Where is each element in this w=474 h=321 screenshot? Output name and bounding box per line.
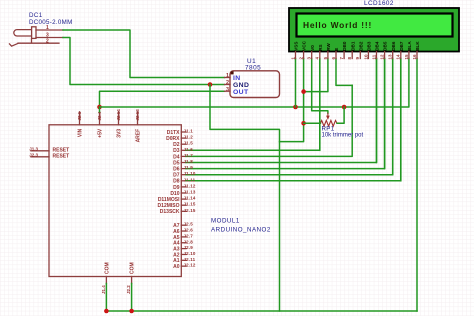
LCD pin 14 DB7 stub — [400, 52, 402, 59]
wire LCD pin16 BLK to ground rail — [416, 59, 418, 312]
MODUL1 right pin A1 (J2.11) — [181, 259, 186, 261]
wire LCD VDD pin1 drop to +5V rail — [295, 59, 297, 108]
svg-text:J2.2: J2.2 — [126, 285, 131, 294]
svg-text:2: 2 — [46, 38, 49, 44]
svg-text:A0: A0 — [173, 264, 180, 270]
svg-text:D10: D10 — [170, 191, 179, 197]
svg-text:Hello World !!!: Hello World !!! — [303, 20, 372, 30]
wire LCD DB4 pin11 riser from D5 — [376, 59, 378, 163]
svg-text:7805: 7805 — [245, 65, 261, 72]
LCD pin 6 E stub — [335, 52, 337, 59]
MODUL1 right pin D11MOSI (J1.14) — [181, 198, 186, 200]
U1 pin 1 IN stub — [225, 77, 231, 79]
node GND junction at 210,84.5 — [208, 82, 213, 87]
wire D3 to LCD RS — [186, 59, 320, 151]
svg-text:MODUL1: MODUL1 — [211, 218, 240, 225]
svg-text:ARDUINO_NANO2: ARDUINO_NANO2 — [211, 227, 271, 234]
svg-text:10: 10 — [363, 54, 368, 60]
U1 pin 3 OUT stub — [225, 90, 231, 92]
wire jack pin1 to U1 IN — [63, 30, 225, 78]
svg-text:DB4: DB4 — [375, 41, 380, 51]
wire LCD DB7 pin14 riser from D8 — [400, 59, 402, 181]
node trimmer left junction — [301, 121, 306, 126]
svg-text:RESET: RESET — [53, 154, 70, 160]
svg-text:DB6: DB6 — [391, 41, 396, 51]
svg-text:13: 13 — [388, 54, 393, 60]
MODUL1 right pin D8 (J1.11) — [181, 180, 186, 182]
svg-text:J1.10: J1.10 — [184, 171, 196, 176]
MODUL1 left pin RESET (J2.3) — [31, 156, 49, 158]
DC1 pin 2 stub — [18, 42, 59, 44]
LCD pin 7 DB0 stub — [343, 52, 345, 59]
svg-text:D13SCK: D13SCK — [160, 209, 180, 215]
svg-text:J2.1: J2.1 — [77, 111, 82, 120]
MODUL1 top pin AREF (J2.13) — [137, 112, 139, 125]
MODUL1 right pin D13SCK (J2.15) — [181, 210, 186, 212]
svg-text:D4: D4 — [173, 154, 180, 160]
wire trimmer right lead up to +5V rail — [337, 107, 344, 123]
svg-text:D8: D8 — [173, 179, 180, 185]
LCD pin 1 VSS stub — [295, 52, 297, 59]
svg-text:DB0: DB0 — [342, 41, 347, 51]
DC1 pin 3 stub — [36, 37, 63, 39]
svg-text:J2.15: J2.15 — [184, 208, 196, 213]
svg-text:D3: D3 — [173, 148, 180, 154]
LCD pin 8 DB1 stub — [351, 52, 353, 59]
svg-text:E: E — [334, 48, 339, 51]
wire +5V rail to LCD — [100, 59, 409, 108]
module MODUL1 ARDUINO_NANO2 body — [49, 125, 181, 277]
svg-text:J1.9: J1.9 — [184, 165, 194, 170]
MODUL1 right pin D9 (J1.12) — [181, 186, 186, 188]
svg-text:BLK: BLK — [415, 41, 420, 51]
svg-text:J1.4: J1.4 — [101, 285, 106, 294]
svg-text:J2.3: J2.3 — [29, 152, 38, 157]
wire LCD RW pin5 to ground line — [304, 59, 328, 92]
MODUL1 top pin VIN (J2.1) — [79, 112, 81, 125]
LCD pin 9 DB2 stub — [359, 52, 361, 59]
svg-text:IN: IN — [233, 75, 241, 82]
display LCD1602 body — [289, 8, 459, 52]
svg-text:J1.15: J1.15 — [184, 202, 196, 207]
svg-text:J2.4: J2.4 — [97, 111, 102, 120]
LCD pin 5 RW stub — [327, 52, 329, 59]
connector DC1 DC005-2.0MM (barrel jack) — [9, 27, 36, 47]
wire LCD RS pin4 riser from D3 — [319, 59, 321, 151]
LCD pin 3 V0 stub — [311, 52, 313, 59]
svg-text:VCC: VCC — [302, 40, 307, 50]
node +5V at trimmer right leg — [342, 105, 347, 110]
svg-text:12: 12 — [380, 54, 385, 60]
wire LCD DB5 pin12 riser from D6 — [384, 59, 386, 169]
MODUL1 top pin 3V3 (J2.14) — [118, 112, 120, 125]
svg-text:DB3: DB3 — [367, 41, 372, 51]
LCD pin 2 VCC stub — [303, 52, 305, 59]
svg-text:AREF: AREF — [136, 129, 142, 143]
MODUL1 right pin D4 (J1.7) — [181, 155, 186, 157]
MODUL1 right pin A0 (J2.12) — [181, 265, 186, 267]
RP1 wiper arrow — [327, 113, 329, 117]
wire ground rail bottom bus — [105, 284, 107, 312]
svg-text:J2.14: J2.14 — [116, 109, 121, 121]
svg-text:DB7: DB7 — [399, 41, 404, 51]
svg-text:D9: D9 — [173, 185, 180, 191]
potentiometer RP1 resistor zigzag — [320, 120, 337, 126]
U1 pin 2 GND stub — [225, 84, 231, 86]
svg-text:VIN: VIN — [78, 128, 84, 137]
svg-text:D1TX: D1TX — [167, 130, 180, 136]
svg-text:RW: RW — [326, 43, 331, 51]
svg-text:J1.1: J1.1 — [184, 129, 194, 134]
wire LCD V0 pin3 to trimmer wiper — [312, 59, 328, 114]
MODUL1 right pin D7 (J1.10) — [181, 174, 186, 176]
svg-text:1: 1 — [226, 73, 229, 79]
svg-text:J1.6: J1.6 — [184, 147, 194, 152]
svg-text:J2.10: J2.10 — [184, 251, 196, 256]
wire D6 to LCD DB5 — [186, 59, 385, 169]
wire U1 OUT to +5V node — [100, 91, 225, 107]
svg-text:BLA: BLA — [407, 41, 412, 51]
MODUL1 bottom pin COM (J2.2) — [131, 277, 133, 284]
wire D4 riser for LCD E — [186, 85, 352, 156]
MODUL1 right pin A4 (J2.8) — [181, 242, 186, 244]
svg-text:LCD1602: LCD1602 — [364, 0, 394, 7]
MODUL1 right pin D5 (J1.8) — [181, 162, 186, 164]
wire D8 to LCD DB7 — [186, 59, 401, 181]
wire GND branch down to ground rail — [210, 85, 280, 312]
svg-text:D2: D2 — [173, 142, 180, 148]
MODUL1 right pin D0RX (J1.2) — [181, 137, 186, 139]
svg-text:11: 11 — [371, 54, 376, 59]
node +5V at LCD pin1 — [293, 105, 298, 110]
MODUL1 right pin D6 (J1.9) — [181, 168, 186, 170]
node ground at COM J2.2 — [129, 309, 134, 314]
svg-text:D12MISO: D12MISO — [158, 203, 180, 209]
MODUL1 top pin +5V (J2.4) — [99, 112, 101, 125]
svg-text:DB2: DB2 — [358, 41, 363, 51]
DC1 pin 1 stub — [36, 29, 63, 31]
MODUL1 right pin A7 (J2.5) — [181, 224, 186, 226]
svg-text:GND: GND — [233, 82, 249, 89]
LCD pin 4 RS stub — [319, 52, 321, 59]
svg-text:DB1: DB1 — [350, 41, 355, 51]
svg-text:DB5: DB5 — [383, 41, 388, 51]
svg-text:D6: D6 — [173, 167, 180, 173]
svg-text:14: 14 — [396, 54, 401, 60]
wire jack pin3 to U1 GND — [63, 38, 225, 85]
svg-text:V0: V0 — [310, 45, 315, 51]
MODUL1 right pin A2 (J2.10) — [181, 253, 186, 255]
wire LCD DB6 pin13 riser from D7 — [392, 59, 394, 175]
LCD pin 11 DB4 stub — [376, 52, 378, 59]
MODUL1 right pin D12MISO (J1.15) — [181, 204, 186, 206]
wire +5V pin to +5V node — [99, 107, 101, 112]
wire D7 to LCD DB6 — [186, 59, 393, 175]
wire E jog from riser to LCD pin6 — [336, 59, 352, 86]
svg-text:3: 3 — [226, 87, 229, 93]
MODUL1 right pin A5 (J2.7) — [181, 236, 186, 238]
node RW-ground junction — [301, 89, 306, 94]
svg-text:J2.6: J2.6 — [184, 228, 194, 233]
LCD1602 screen — [297, 14, 453, 37]
wire trimmer left lead — [304, 122, 321, 124]
svg-text:OUT: OUT — [233, 89, 249, 96]
svg-text:J1.12: J1.12 — [184, 183, 196, 188]
wire D5 to LCD DB4 — [186, 59, 377, 163]
svg-text:15: 15 — [404, 54, 409, 60]
svg-text:COM: COM — [104, 262, 110, 274]
svg-text:J1.13: J1.13 — [184, 190, 196, 195]
LCD pin 16 BLK stub — [416, 52, 418, 59]
svg-text:J2.12: J2.12 — [184, 263, 196, 268]
svg-text:COM: COM — [130, 262, 136, 274]
svg-text:DC005-2.0MM: DC005-2.0MM — [29, 19, 73, 26]
node +5V junction at arduino +5V pin — [97, 105, 102, 110]
svg-text:3V3: 3V3 — [117, 129, 123, 138]
svg-text:VSS: VSS — [294, 42, 299, 51]
svg-text:J1.8: J1.8 — [184, 159, 194, 164]
LCD pin 13 DB6 stub — [392, 52, 394, 59]
MODUL1 bottom pin COM (J1.4) — [105, 277, 107, 284]
svg-text:D5: D5 — [173, 160, 180, 166]
MODUL1 right pin D10 (J1.13) — [181, 192, 186, 194]
svg-text:J2.8: J2.8 — [184, 239, 194, 244]
svg-text:D0RX: D0RX — [166, 136, 180, 142]
svg-text:J2.13: J2.13 — [135, 109, 140, 121]
MODUL1 right pin A6 (J2.6) — [181, 230, 186, 232]
svg-text:RS: RS — [318, 44, 323, 50]
MODUL1 right pin A3 (J2.9) — [181, 248, 186, 250]
svg-text:2: 2 — [226, 80, 229, 86]
node ground at COM J1.4 — [104, 309, 109, 314]
svg-text:J1.11: J1.11 — [184, 177, 196, 182]
svg-text:D7: D7 — [173, 173, 180, 179]
svg-text:J1.7: J1.7 — [184, 153, 194, 158]
svg-text:J2.9: J2.9 — [184, 245, 194, 250]
svg-text:D11MOSI: D11MOSI — [158, 197, 180, 203]
svg-text:J2.11: J2.11 — [184, 257, 196, 262]
svg-text:J1.14: J1.14 — [184, 196, 196, 201]
svg-text:J2.7: J2.7 — [184, 233, 194, 238]
LCD pin 10 DB3 stub — [367, 52, 369, 59]
MODUL1 right pin D3 (J1.6) — [181, 149, 186, 151]
svg-text:DC1: DC1 — [29, 12, 43, 19]
svg-text:J1.3: J1.3 — [29, 146, 38, 151]
svg-text:10k trimmer pot: 10k trimmer pot — [322, 132, 364, 138]
svg-text:J1.2: J1.2 — [184, 135, 194, 140]
LCD pin 12 DB5 stub — [384, 52, 386, 59]
svg-text:J2.5: J2.5 — [184, 222, 194, 227]
MODUL1 right pin D1TX (J1.1) — [181, 131, 186, 133]
voltage regulator U1 7805 body — [230, 71, 280, 98]
svg-text:16: 16 — [412, 54, 417, 60]
svg-text:J1.5: J1.5 — [184, 141, 194, 146]
MODUL1 left pin RESET (J1.3) — [31, 150, 49, 152]
MODUL1 right pin D2 (J1.5) — [181, 143, 186, 145]
LCD pin 15 BLA stub — [408, 52, 410, 59]
wire LCD VSS pin2 drop to trimmer and ground — [280, 59, 304, 142]
svg-text:+5V: +5V — [98, 128, 104, 138]
